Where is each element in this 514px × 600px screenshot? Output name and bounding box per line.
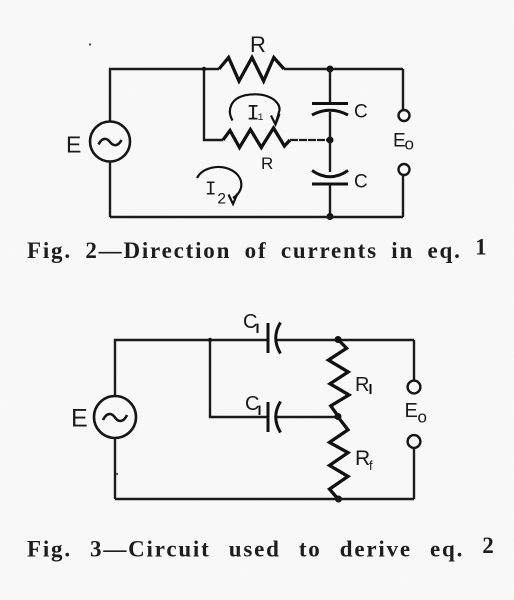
wire: middle resistor to node [290,139,330,141]
resistor Rf (fig3) [330,417,349,499]
terminal (fig2 top) [399,110,410,121]
capacitor C1 (bottom, fig3) [267,402,270,432]
svg-text:E: E [405,400,418,422]
wire: fig3 dropper [210,340,268,417]
wire: dropper from top wire to second branch [204,69,223,140]
svg-text:f: f [369,458,373,473]
capacitor C (top, fig2) [312,102,348,105]
svg-text:R: R [250,32,266,57]
wire: fig3 right rail bottom [413,448,415,499]
node tick at fig3 dropper junction [208,338,212,342]
capacitor C1 (top, fig3) [267,323,270,353]
svg-text:Fig. 3—Circuit used to derive: Fig. 3—Circuit used to derive eq. 2 [27,533,496,562]
svg-text:R: R [355,447,370,470]
svg-text:C: C [354,172,368,193]
wire: capacitor column top [329,69,331,103]
wire: fig3 top-right segment [277,339,414,341]
svg-text:o: o [418,408,427,427]
source E (fig2, AC) [90,122,130,162]
svg-text:R: R [355,374,369,396]
resistor R1 (fig3) [328,340,349,417]
node tick at top dropper junction [202,67,206,71]
svg-text:2: 2 [217,191,226,209]
svg-text:C: C [243,311,257,333]
wire: capacitor column bottom [329,184,331,217]
node middle of resistor chain [335,413,342,420]
node middle of capacitor column [327,137,334,144]
wire: fig3 bottom rail [115,498,414,500]
svg-text:I: I [205,179,216,201]
wire: fig2 right rail bottom [402,175,404,217]
svg-text:C: C [354,102,368,123]
node at top of capacitor column [327,66,334,73]
svg-text:R: R [261,154,273,173]
capacitor C (bottom, fig2) [312,171,348,177]
current loop I2 arc [197,167,241,198]
stray speck fig3 [116,473,118,475]
svg-text:o: o [405,135,414,154]
wire: fig2 right rail top [402,69,404,110]
wire: fig3 top-left segment [115,340,268,396]
resistor R (middle, fig2) [223,128,290,148]
node at bottom of resistor chain [335,496,342,503]
wire: fig3 left rail bottom [114,438,116,499]
stray speck fig2 [89,43,91,45]
wire: fig2 left rail bottom [109,162,111,218]
wire: fig2 bottom rail [110,216,403,218]
terminal (fig2 bottom) [399,164,410,175]
current loop I1 arc [230,94,280,123]
terminal (fig3 bottom) [408,435,421,448]
svg-text:1: 1 [258,113,264,124]
svg-text:E: E [66,132,81,158]
terminal (fig3 top) [408,381,421,394]
wire: bottom cap to middle node [277,416,338,418]
wire: fig2 top-right segment [284,68,403,70]
node at top of resistor chain [335,336,342,343]
node at bottom of capacitor column [327,213,334,220]
wire: between capacitors [329,112,331,172]
svg-text:E: E [71,405,88,433]
wire: fig2 top-left segment [110,69,219,122]
source E (fig3, AC) [94,396,136,438]
resistor R (top, fig2) [219,58,284,82]
svg-text:Fig. 2—Direction of currents i: Fig. 2—Direction of currents in eq. 1 [27,234,488,263]
svg-text:C: C [245,393,259,415]
wire: fig3 right rail top [413,340,415,381]
